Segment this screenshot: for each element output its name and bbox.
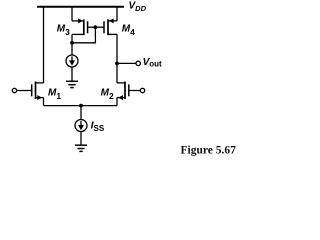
wire: Vout node to output terminal bbox=[117, 62, 136, 64]
ground (under current source I1) bbox=[66, 81, 78, 87]
wire: left input to M1 gate bbox=[17, 90, 32, 92]
current source ISS bbox=[75, 120, 87, 132]
wire: left rail vertical (VDD to M1 drain) bbox=[43, 7, 45, 83]
wire: ISS to ground bbox=[80, 132, 82, 145]
wire: tail rail bbox=[44, 105, 118, 107]
wire: M3 source to VDD bbox=[71, 7, 73, 21]
current source I1 bbox=[66, 55, 78, 67]
wire: Vout node down to M2 drain bbox=[116, 63, 118, 83]
wire: drain node to current source bbox=[71, 43, 73, 55]
wire: M4 drain down to Vout node bbox=[116, 34, 118, 63]
node: tail junction dot bbox=[79, 104, 83, 108]
wire: M4 source to VDD bbox=[116, 7, 118, 21]
wire: M2 source down to tail bbox=[116, 98, 118, 106]
ground (under ISS) bbox=[75, 145, 87, 151]
node: M3 drain junction dot bbox=[70, 41, 74, 45]
wire: tail down to ISS bbox=[80, 106, 82, 120]
terminal: input right bbox=[140, 88, 144, 92]
node: gate junction dot bbox=[94, 25, 98, 29]
transistor M4 bbox=[104, 18, 117, 35]
transistor M1 bbox=[32, 82, 44, 101]
terminal: input left bbox=[12, 88, 16, 92]
wire: M3 gate lead bbox=[88, 26, 96, 28]
wire: M1 source down to tail bbox=[43, 98, 45, 106]
terminal: Vout bbox=[136, 61, 140, 65]
wire: right input to M2 gate bbox=[129, 90, 141, 92]
transistor M2 bbox=[117, 82, 129, 101]
wire: M4 gate lead bbox=[95, 26, 104, 28]
VDD rail bbox=[37, 6, 124, 8]
wire: gate junction down to drain node bbox=[72, 27, 95, 43]
node: Vout junction dot bbox=[115, 62, 119, 66]
svg-text:Vout: Vout bbox=[143, 57, 162, 69]
transistor M3 bbox=[72, 18, 88, 35]
svg-text:Figure 5.67: Figure 5.67 bbox=[181, 144, 237, 156]
wire: current source to ground bbox=[71, 67, 73, 81]
wire: M3 drain down bbox=[71, 34, 73, 42]
